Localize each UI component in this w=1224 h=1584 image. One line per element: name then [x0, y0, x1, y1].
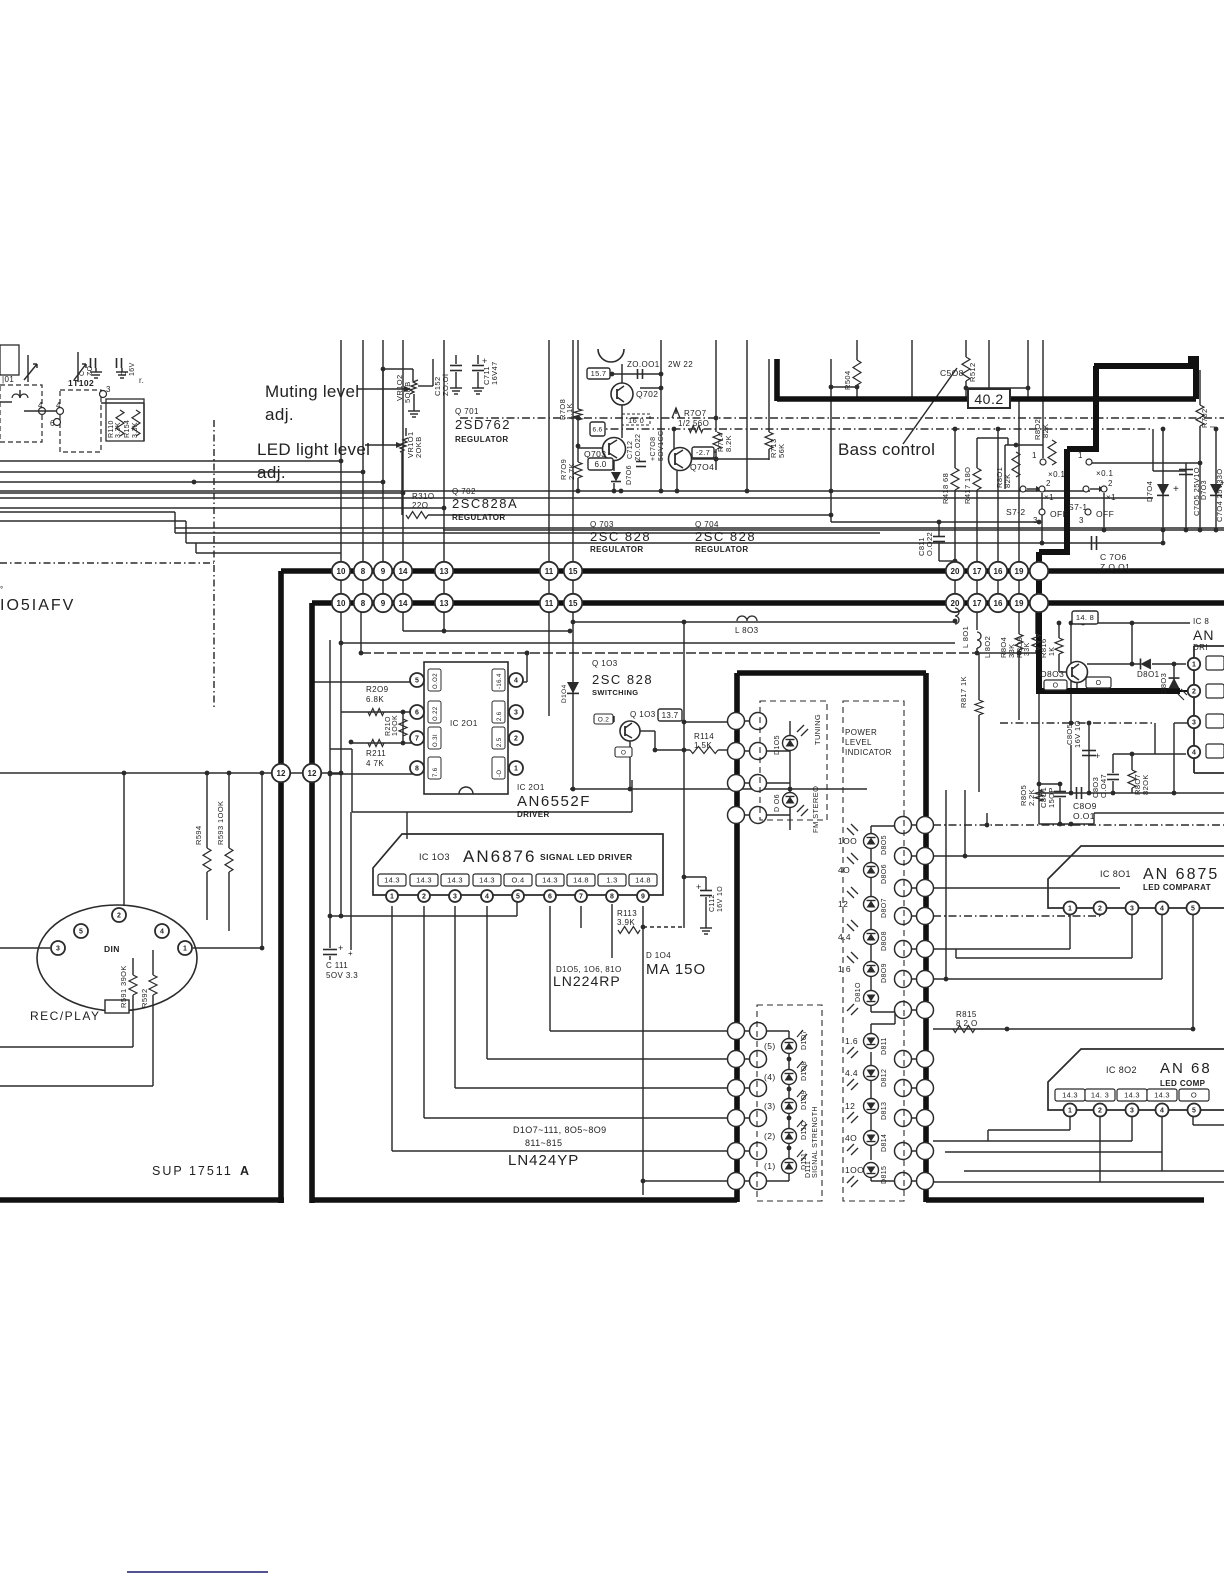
wire R592 v: [0, 950, 153, 1086]
IC8 pin 3: [1188, 716, 1200, 728]
wire t102 link: [0, 402, 56, 411]
junction dot: [339, 459, 447, 511]
wire pin5 C111 row: [328, 902, 517, 918]
label bass control: [838, 440, 935, 459]
svg-text:+: +: [348, 949, 353, 958]
svg-text:6.6: 6.6: [593, 426, 603, 433]
wire Q103 base: [598, 716, 614, 722]
wire v965: [964, 790, 966, 856]
wire ic802 p2: [933, 1117, 1224, 1182]
IC8 labels: [1193, 617, 1214, 652]
svg-text:+: +: [696, 882, 702, 892]
label Q702blk: [452, 487, 518, 522]
wire q803 e: [1075, 682, 1080, 693]
heavy jag 2: [1067, 446, 1099, 452]
label tuning: [813, 714, 822, 745]
wire v989: [988, 340, 990, 388]
label muting level: [265, 382, 359, 424]
svg-text:R591 39OK: R591 39OK: [119, 965, 128, 1008]
bus A heavy: [281, 568, 1224, 574]
wire R815 row: [933, 1027, 1193, 1032]
svg-text:OFF: OFF: [1096, 509, 1114, 519]
trimmer arrow 2: [74, 352, 86, 382]
label D104 MA150: [646, 951, 706, 978]
svg-text:D811: D811: [881, 1037, 888, 1055]
IC201 pin pair 0: [410, 673, 523, 687]
wire L801 v: [953, 603, 958, 623]
40.2 bus left drop: [774, 359, 780, 401]
svg-text:AN6876: AN6876: [463, 847, 536, 866]
svg-text:3: 3: [56, 946, 60, 953]
wire left feed 2: [0, 471, 363, 473]
wire v1019t: [1017, 397, 1022, 603]
wire v831: [829, 359, 834, 522]
pair circles R 825: [895, 817, 934, 834]
wire v262: [261, 773, 263, 948]
bus A pin 14: [394, 562, 412, 580]
wire left feed 1: [0, 460, 341, 462]
wire y783 stub: [766, 782, 790, 784]
svg-text:LED COMPARAT: LED COMPARAT: [1143, 883, 1211, 892]
svg-text:r.: r.: [139, 376, 144, 385]
svg-text:D7O4: D7O4: [1145, 481, 1154, 502]
svg-text:4: 4: [38, 401, 43, 410]
resistor R504: [843, 360, 861, 390]
svg-text:|01: |01: [2, 375, 14, 384]
wire Q704 base: [672, 427, 677, 449]
svg-text:R110: R110: [108, 420, 115, 438]
svg-text:4: 4: [56, 401, 61, 410]
svg-text:1OOK: 1OOK: [392, 715, 399, 736]
svg-text:7: 7: [579, 894, 583, 901]
pair circles L 1031: [728, 1023, 767, 1040]
svg-text:1.5K: 1.5K: [694, 741, 712, 750]
wire v998: [996, 427, 1001, 603]
svg-text:Ⅰ: Ⅰ: [1210, 426, 1217, 428]
wire y491: [0, 489, 1090, 494]
svg-text:3: 3: [453, 894, 457, 901]
svg-text:3: 3: [1079, 516, 1084, 525]
svg-text:12: 12: [845, 1101, 855, 1111]
svg-text:2SC828A: 2SC828A: [452, 496, 518, 511]
bus A pin 20: [946, 562, 964, 580]
wire v684: [682, 622, 687, 928]
IC802 outline: [1048, 1049, 1224, 1110]
svg-text:2: 2: [514, 736, 518, 743]
IC801 pin 2: [1094, 902, 1107, 915]
label 2W22: [668, 360, 693, 369]
svg-text:IC 8O2: IC 8O2: [1106, 1065, 1137, 1075]
LED D8O7: [838, 887, 888, 918]
pair circles L 1059: [728, 1051, 767, 1068]
svg-text:4: 4: [1160, 906, 1164, 913]
wire y773: [0, 771, 341, 776]
svg-text:2W 22: 2W 22: [668, 360, 693, 369]
cap C-right: [116, 358, 128, 378]
svg-text:11: 11: [545, 599, 554, 608]
AN6876 value box 2: [410, 874, 438, 886]
resistor R815: [953, 1010, 978, 1033]
svg-text:ZO: ZO: [87, 365, 94, 376]
svg-text:9: 9: [381, 567, 386, 576]
box 40.2: [968, 389, 1010, 408]
footer line: [127, 1571, 268, 1573]
wire vertical x363: [362, 340, 364, 603]
wire v955: [953, 427, 958, 603]
switch S7-2: [1006, 451, 1068, 525]
svg-text:2: 2: [1108, 479, 1113, 488]
heavy top bar: [1094, 356, 1199, 367]
wire pairR stub 1059: [895, 1058, 933, 1060]
svg-text:1: 1: [1192, 662, 1196, 669]
resistor R310: [406, 492, 435, 519]
svg-text:IC 1O3: IC 1O3: [419, 852, 450, 862]
svg-text:R512: R512: [968, 362, 977, 382]
IC201 pin pair 2: [410, 731, 523, 745]
svg-text:SIGNAL STRENGTH: SIGNAL STRENGTH: [812, 1106, 819, 1178]
svg-text:INDICATOR: INDICATOR: [845, 748, 892, 757]
coil L803: [735, 616, 759, 635]
AN6876 value box 6: [536, 874, 564, 886]
label C704: [1215, 468, 1224, 522]
svg-text:3: 3: [1130, 1108, 1134, 1115]
svg-text:Z O.O1: Z O.O1: [1100, 562, 1130, 572]
svg-text:17: 17: [973, 567, 982, 576]
box 13.7: [658, 709, 682, 721]
svg-text:C5O8: C5O8: [940, 368, 964, 378]
wire y888: [933, 887, 1120, 889]
LED D11O: [764, 1120, 808, 1144]
wire v578: [576, 340, 581, 493]
pin 4a: [38, 401, 46, 415]
svg-text:6: 6: [548, 894, 552, 901]
svg-text:15.7: 15.7: [591, 369, 607, 378]
svg-text:R211: R211: [366, 749, 386, 758]
svg-text:adj.: adj.: [265, 405, 294, 424]
wire v351: [348, 812, 353, 958]
svg-text:LN224RP: LN224RP: [553, 973, 621, 989]
label fm stereo: [811, 786, 820, 833]
wire v207 R594: [206, 773, 208, 920]
wire pairR stub 1151: [895, 1150, 933, 1152]
svg-text:D1O7: D1O7: [801, 1030, 808, 1050]
svg-text:5: 5: [516, 894, 520, 901]
label 1T102: [68, 378, 94, 388]
LED D811: [845, 1034, 888, 1059]
svg-text:9: 9: [641, 894, 645, 901]
DIN pin1: [178, 941, 192, 955]
wire v1174: [1174, 723, 1188, 793]
pair circles L 1181: [728, 1173, 767, 1190]
svg-text:2.6: 2.6: [497, 711, 503, 721]
wire pairR stub 979: [895, 978, 933, 980]
svg-text:14: 14: [399, 599, 408, 608]
transistor Q803: [1040, 662, 1088, 683]
bus A pin 10: [332, 562, 350, 580]
LED D106: [774, 793, 808, 817]
IC802 value box 5: [1179, 1089, 1209, 1101]
svg-text:O.O1: O.O1: [1073, 811, 1095, 821]
svg-text:811~815: 811~815: [525, 1138, 562, 1148]
svg-text:5: 5: [1192, 1108, 1196, 1115]
wire v330: [329, 640, 331, 916]
svg-text:-16.4: -16.4: [497, 673, 503, 689]
pair circles L 1118: [728, 1110, 767, 1127]
svg-text:D7O3: D7O3: [1201, 480, 1208, 500]
LED D8O6: [838, 853, 888, 884]
svg-text:O.3Ⅰ: O.3Ⅰ: [433, 734, 439, 747]
svg-text:82OK: 82OK: [1141, 774, 1150, 795]
wire DIN pin3 left: [0, 947, 50, 949]
R110 box: [106, 399, 144, 441]
wire jog2: [0, 521, 1043, 543]
resistor R417: [963, 467, 981, 504]
svg-text:R817 1K: R817 1K: [959, 676, 968, 708]
AN6876 title: [419, 847, 633, 866]
wire v573 D104: [571, 604, 576, 791]
wire v1155: [1155, 723, 1186, 754]
resistor R714: [713, 432, 733, 452]
wire pairL stub 1088: [730, 1087, 766, 1089]
svg-text:C: C: [121, 371, 128, 376]
svg-text:×0.1: ×0.1: [1096, 469, 1114, 478]
diode D104: [561, 682, 579, 703]
wire y631: [403, 604, 572, 633]
svg-text:14.3: 14.3: [384, 876, 400, 885]
svg-text:14.3: 14.3: [1062, 1091, 1078, 1100]
resistor R709: [559, 459, 582, 480]
svg-text:16V: 16V: [129, 362, 136, 376]
pair circles R 979: [895, 971, 934, 988]
svg-text:4: 4: [1160, 1108, 1164, 1115]
svg-text:56K: 56K: [777, 443, 786, 458]
AN6876 pin 7: [575, 890, 587, 902]
resistor R209: [366, 685, 389, 716]
svg-text:C8O9: C8O9: [1073, 801, 1097, 811]
wire pairR stub 1181: [895, 1180, 933, 1182]
svg-text:15OP: 15OP: [1047, 787, 1056, 808]
svg-text:3.3K: 3.3K: [132, 422, 139, 438]
svg-text:10: 10: [337, 599, 346, 608]
wire v1071b: [1069, 745, 1074, 795]
wire VR101 chain: [383, 369, 402, 515]
svg-text:ZO.OO1: ZO.OO1: [627, 360, 660, 369]
wire C706 row: [1040, 541, 1163, 546]
wire Q103 down: [629, 740, 631, 789]
IC201 pin pair 3: [410, 761, 523, 775]
label LN424YP: [508, 1152, 579, 1169]
wire y530 long: [443, 529, 1224, 531]
AN6876 outline: [373, 834, 663, 895]
svg-text:2SC 828: 2SC 828: [695, 529, 756, 544]
LED D815: [845, 1163, 888, 1188]
pair circles R 888: [895, 880, 934, 897]
box 0a: [615, 747, 632, 757]
diode D706: [611, 465, 633, 485]
right box bottom R: [926, 1197, 1204, 1203]
cap C705: [1173, 467, 1201, 516]
LED D111: [764, 1150, 808, 1174]
wire ic801 p5: [1191, 914, 1196, 1031]
pair circles R 949: [895, 941, 934, 958]
wire D805 col: [871, 826, 895, 1012]
wire pairR stub 825: [895, 824, 933, 826]
coil L802: [977, 632, 992, 658]
svg-text:C7O5 25V1O: C7O5 25V1O: [1192, 467, 1201, 516]
wire y522: [831, 520, 1041, 525]
wire v622: [621, 364, 623, 438]
heavy jag 3: [1064, 449, 1070, 552]
box 15.7: [587, 368, 610, 379]
pot VR102: [381, 367, 418, 407]
AN6876 pin 5: [512, 890, 524, 902]
IC801 pin 1: [1064, 902, 1077, 915]
svg-text:SWITCHING: SWITCHING: [592, 688, 639, 697]
wire D107 col: [766, 1031, 791, 1181]
wire left feed 3: [0, 481, 383, 483]
svg-text:3: 3: [106, 385, 111, 394]
dashed box signal: [757, 1005, 822, 1201]
cap C711: [472, 355, 488, 394]
pair circles R 1118: [895, 1110, 934, 1127]
wire y813: [1094, 812, 1224, 814]
resistor R113: [617, 909, 640, 934]
wire R804 v: [1018, 606, 1020, 653]
svg-text:S7-2: S7-2: [1006, 507, 1026, 517]
wire ic801 p1: [933, 914, 1070, 949]
svg-text:L 8O2: L 8O2: [983, 636, 992, 658]
LED D812: [845, 1066, 888, 1091]
wire L802 v: [976, 603, 978, 653]
wire y793: [1039, 791, 1224, 796]
label SUP: [152, 1164, 250, 1178]
wire v124 DIN: [123, 773, 125, 906]
wire v1039 low: [1037, 694, 1042, 824]
svg-text:LED light level: LED light level: [257, 440, 370, 459]
svg-text:1K: 1K: [1049, 647, 1056, 656]
box 6.0: [588, 458, 613, 470]
wire pairR stub 916: [895, 915, 933, 917]
svg-text:6.0: 6.0: [594, 460, 606, 469]
svg-text:Q 703: Q 703: [590, 520, 614, 529]
wire y388: [966, 386, 1030, 391]
wire C811: [939, 522, 957, 563]
bus A pin 13: [435, 562, 453, 580]
LED D810: [847, 982, 879, 1015]
wire C705 v: [1184, 463, 1189, 532]
wire left feed 5: [0, 507, 444, 509]
svg-text:D1O4: D1O4: [561, 684, 568, 703]
svg-text:+C7O8: +C7O8: [650, 437, 657, 461]
wire jog1: [0, 512, 1224, 533]
wire D703 v: [1214, 427, 1219, 533]
transistor Q702: [611, 383, 658, 405]
wire vertical x549: [548, 340, 550, 603]
svg-text:D1O8: D1O8: [801, 1061, 808, 1081]
svg-text:R504: R504: [843, 370, 852, 390]
wire v1153: [1153, 429, 1186, 471]
svg-text:R702: R702: [1200, 408, 1209, 428]
pair circles L 1088: [728, 1080, 767, 1097]
svg-text:1: 1: [1032, 451, 1037, 460]
svg-text:2: 2: [1046, 479, 1051, 488]
svg-text:4.4: 4.4: [845, 1068, 858, 1078]
transistor Q103: [620, 721, 640, 741]
svg-text:1 6: 1 6: [838, 964, 851, 974]
box 0 left: [1044, 680, 1067, 690]
svg-text:2: 2: [1098, 1108, 1102, 1115]
svg-text:R113: R113: [617, 909, 637, 918]
resistor R418: [941, 468, 959, 504]
svg-text:4O: 4O: [838, 865, 850, 875]
heavy jag 5: [1036, 552, 1042, 694]
left box bottom: [0, 1197, 284, 1203]
wire y498: [0, 497, 1153, 499]
svg-text:16: 16: [994, 599, 1003, 608]
svg-text:D 1O4: D 1O4: [646, 951, 671, 960]
inner box top: [737, 670, 926, 676]
svg-text:O: O: [621, 749, 626, 756]
label Q704blk: [695, 520, 756, 554]
svg-text:1.1K: 1.1K: [565, 403, 574, 420]
wire v661: [659, 340, 664, 493]
wire y723 dashdot: [1000, 722, 1155, 724]
box 6.6: [590, 422, 605, 436]
resistor R713: [765, 432, 786, 458]
wire y1152 r: [945, 1151, 1162, 1153]
wire R209 y712: [341, 711, 417, 713]
label Q701: [455, 407, 511, 444]
pin 6: [50, 419, 61, 429]
pointer muting: [357, 386, 411, 392]
svg-text:POWER: POWER: [845, 728, 877, 737]
resistor R110: [108, 410, 124, 438]
resistor R114: [690, 732, 718, 754]
pair circles R 856: [895, 848, 934, 865]
inner box right: [923, 673, 929, 1202]
svg-text:5: 5: [1191, 906, 1195, 913]
wire y856: [933, 854, 1224, 859]
svg-text:Q702: Q702: [636, 389, 658, 399]
wire nest pin 2: [455, 906, 730, 1088]
dash-dot line y418: [460, 417, 1224, 419]
AN6876 value box 8: [598, 874, 626, 886]
IC802 pin 3: [1126, 1104, 1139, 1117]
wire v1132 top: [1131, 623, 1133, 664]
svg-text:D1O9: D1O9: [801, 1090, 808, 1110]
bus A pin 17: [968, 562, 986, 580]
svg-text:R594: R594: [194, 825, 203, 845]
svg-text:AN 68: AN 68: [1160, 1060, 1212, 1077]
svg-text:2: 2: [117, 913, 121, 920]
heavy v right: [1193, 361, 1199, 399]
svg-text:R31O: R31O: [412, 492, 435, 501]
svg-text:O.O47: O.O47: [1099, 774, 1108, 798]
label RECPLAY: [30, 1009, 100, 1023]
IC201 value boxes 3: [428, 757, 505, 779]
label D107 group: [513, 1125, 607, 1148]
svg-text:D8O8: D8O8: [881, 931, 888, 951]
svg-text:1.3: 1.3: [606, 876, 617, 885]
diode D803: [1159, 673, 1187, 700]
small box topleft: [0, 345, 19, 375]
wire y460: [691, 457, 769, 462]
wire pairL stub 751: [730, 750, 766, 752]
svg-text:5OKB: 5OKB: [403, 381, 412, 403]
IC801 pin 5: [1187, 902, 1200, 915]
svg-text:D815: D815: [881, 1166, 888, 1184]
heavy jag 4: [1039, 549, 1070, 555]
